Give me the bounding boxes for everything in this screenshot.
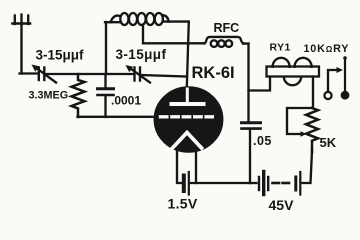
battery B2 45V xyxy=(250,172,300,195)
plate vertical wire (tank right) xyxy=(187,22,189,88)
capacitor C4: variable 3-15uuf (feedback) xyxy=(126,65,151,83)
svg-text:5K: 5K xyxy=(320,135,337,150)
relay contact: armature wire with arrow xyxy=(328,70,338,92)
tank top wire right xyxy=(163,20,189,22)
svg-text:RK-6I: RK-6I xyxy=(192,64,235,82)
wire branch to relay coil xyxy=(249,77,271,91)
svg-text:45V: 45V xyxy=(269,197,295,213)
coil tap wire to RFC xyxy=(143,25,205,44)
wire grid line to feedback cap xyxy=(141,75,187,77)
antenna xyxy=(13,15,31,74)
wiper arrowhead xyxy=(301,131,307,137)
grid rail wire xyxy=(78,116,157,118)
tank left vertical wire xyxy=(105,22,107,74)
svg-text:3-15μμf: 3-15μμf xyxy=(36,48,85,63)
relay contact: fixed terminal circle xyxy=(324,92,331,99)
inductor RFC (3 turns) xyxy=(204,37,244,47)
filament left lead wire xyxy=(177,150,182,183)
svg-text:.0001: .0001 xyxy=(111,94,141,108)
wiper loop wire xyxy=(287,108,310,134)
svg-text:RFC: RFC xyxy=(214,21,240,35)
filament right lead wire xyxy=(195,151,197,183)
tube grid (dashed) xyxy=(161,115,213,118)
relay contact: moving blade xyxy=(341,56,350,99)
wire RFC corner down to C3 xyxy=(247,44,249,122)
tube V1 RK-61 envelope xyxy=(155,88,222,152)
tank top wire left xyxy=(105,21,121,23)
potentiometer R2 5K xyxy=(306,108,318,152)
resistor R1 3.3MEG xyxy=(72,74,85,117)
wire pot bottom to battery xyxy=(303,151,313,183)
wire RFC to corner xyxy=(243,42,249,44)
relay RY1 coil xyxy=(267,58,320,85)
svg-text:3.3MEG: 3.3MEG xyxy=(29,90,69,102)
wire antenna to C1 xyxy=(20,72,38,74)
capacitor C2 .0001 xyxy=(98,74,114,117)
relay right lead wire xyxy=(312,77,314,109)
svg-text:3-15μμf: 3-15μμf xyxy=(116,47,167,62)
tube plate xyxy=(172,89,204,104)
inductor L1 (tank coil, 5 turns) xyxy=(111,13,169,25)
svg-text:.05: .05 xyxy=(253,134,272,148)
tube filament xyxy=(173,133,202,149)
wire B1 to bottom rail xyxy=(190,182,250,184)
svg-text:RY1: RY1 xyxy=(270,42,291,54)
battery B1 1.5V xyxy=(184,172,189,195)
svg-text:10KΩRY: 10KΩRY xyxy=(304,43,350,55)
capacitor C1 3-15uuf (variable) xyxy=(32,65,57,83)
capacitor C3 .05 xyxy=(242,123,261,183)
svg-text:1.5V: 1.5V xyxy=(168,196,198,212)
wire C1 to grid node xyxy=(46,73,134,75)
